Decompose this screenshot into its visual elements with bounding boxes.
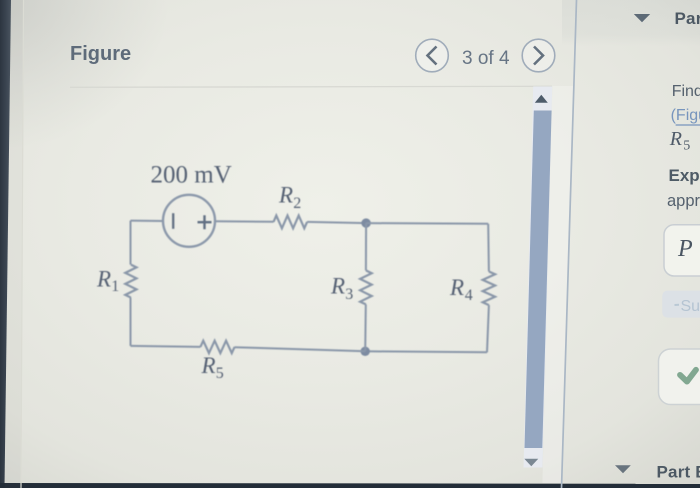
wire R5 to bottom-left corner — [131, 346, 201, 347]
voltage source V1 200 mV — [163, 195, 215, 247]
svg-text:3 of 4: 3 of 4 — [462, 48, 510, 69]
bottom: Part B triangle — [615, 465, 631, 473]
svg-text:4: 4 — [465, 287, 473, 304]
figure area top border — [70, 86, 552, 87]
svg-text:R: R — [201, 353, 216, 378]
wire bottom-right to node B — [365, 351, 487, 352]
svg-text:Su: Su — [681, 298, 700, 315]
svg-text:(Figure: (Figure — [671, 107, 700, 124]
svg-text:5: 5 — [683, 138, 690, 153]
wire left side lower — [130, 298, 132, 346]
scrollbar thumb — [525, 111, 552, 449]
svg-text:appropri: appropri — [667, 192, 700, 210]
resistor R1 — [125, 265, 136, 298]
svg-text:5: 5 — [216, 365, 224, 382]
wire node A to R3 — [365, 223, 367, 270]
resistor R2 — [274, 216, 308, 229]
pagination prev button — [416, 39, 449, 72]
resistor R4 — [483, 272, 495, 306]
right panel tint band — [562, 0, 700, 46]
left gutter shade — [5, 0, 24, 488]
svg-text:R: R — [96, 267, 111, 292]
wire right side upper — [487, 224, 490, 272]
svg-text:3: 3 — [345, 286, 353, 303]
svg-text:Figure: Figure — [70, 43, 131, 65]
svg-text:Part B: Part B — [657, 463, 700, 482]
svg-text:R: R — [330, 274, 345, 299]
node B bottom junction — [361, 347, 370, 356]
right panel border — [562, 0, 577, 488]
bottom screen bezel — [0, 483, 700, 488]
svg-text:1: 1 — [111, 278, 119, 295]
svg-text:Express: Express — [669, 166, 700, 185]
left screen bezel — [0, 0, 11, 488]
svg-text:Find the: Find the — [672, 83, 700, 100]
svg-text:R: R — [669, 128, 682, 150]
faint sidebar line — [21, 0, 24, 488]
wire node A to top-right corner — [366, 222, 488, 225]
node A top junction — [361, 218, 370, 227]
bright gutter right of scrollbar — [542, 86, 573, 483]
svg-text:P: P — [677, 236, 693, 262]
plus terminal mark — [198, 215, 212, 229]
right panel: correct answer card — [659, 349, 700, 405]
right panel: header triangle — [634, 14, 650, 22]
svg-text:Part A: Part A — [675, 9, 700, 28]
svg-text:R: R — [449, 275, 464, 300]
scrollbar up arrow — [535, 95, 548, 103]
wire left side upper — [130, 221, 132, 265]
minus terminal mark — [172, 213, 174, 229]
wire source to R2 — [215, 220, 274, 223]
scrollbar track — [524, 87, 553, 468]
wire node B to R5 — [235, 347, 366, 351]
right panel: answer box — [664, 225, 700, 276]
scrollbar down arrow — [524, 459, 538, 467]
svg-text:R: R — [278, 183, 293, 208]
wire top-left segment — [131, 220, 164, 222]
pagination next button — [522, 39, 555, 72]
svg-text:200 mV: 200 mV — [151, 162, 232, 189]
resistor R5 — [200, 341, 234, 353]
right panel: submit disabled button — [662, 291, 700, 318]
wire right side lower — [487, 305, 489, 352]
wire R3 to node B — [364, 304, 367, 351]
wire R2 to node A — [307, 222, 366, 223]
resistor R3 — [360, 270, 372, 304]
svg-text:2: 2 — [293, 195, 301, 212]
